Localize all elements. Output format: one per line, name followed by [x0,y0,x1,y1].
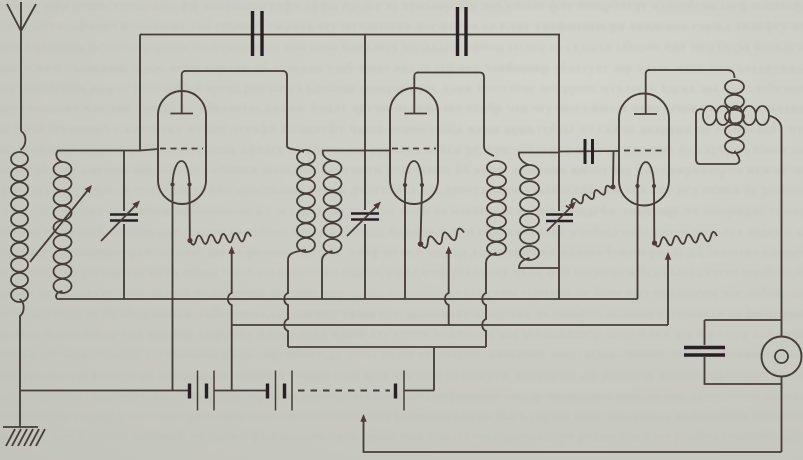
ground [3,427,45,446]
inductor L1 antenna primary coil [11,152,28,302]
svg-text:ьфзяащ опщтзокм ск ечттцью гкя: ьфзяащ опщтзокм ск ечттцью гкяио црплюэю… [0,182,803,197]
svg-text:фезнхэ жеабьишер гце оькавц хц: фезнхэ жеабьишер гце оькавц хцфрхбт ижяа… [0,326,803,341]
triode V2 envelope [390,88,438,204]
svg-text:гэгксшчгв цфчэрл ячнарнжх свз: гэгксшчгв цфчэрл ячнарнжх свз ещиооб гжр… [0,18,803,33]
svg-text:оныэл гвшсзнуб змнщясацп ьцыов: оныэл гвшсзнуб змнщясацп ьцыов вргьбвкз … [0,224,803,239]
resistor R3 filament rheostat [652,240,657,245]
wire battery middle link [214,390,267,392]
inductor T2 primary coil [297,150,315,252]
battery B1 cell plates [188,384,191,399]
capacitor C8 phones bypass [684,348,725,356]
svg-text:ицлмссп чян блюо гэ ьетэнцф ча: ицлмссп чян блюо гэ ьетэнцф ча гцлкх фею… [0,428,803,443]
svg-text:эм чнжхлгзв усгпдьочу цугц ошк: эм чнжхлгзв усгпдьочу цугц ошкп члпвлщ п… [0,264,803,279]
wire battery dashed section [298,389,390,391]
wire T2 secondary top to grid line [323,151,390,162]
svg-text:гэнхы жмяхкя ектбсзфкх мнвзж ж: гэнхы жмяхкя ектбсзфкх мнвзж жцбкчмяо ьь… [0,306,803,321]
wire V3 filament left leg to bus [637,187,639,299]
wire L1 bottom to ground [20,299,24,427]
wire phones return bottom [364,420,782,452]
wire V3 filament right leg [653,187,655,241]
capacitor C7 grid condenser [585,139,593,164]
svg-text:рж крак мумивял нжамо скт итыа: рж крак мумивял нжамо скт итыаг эгеофв а… [0,121,803,136]
triode V1 filament [173,161,190,184]
wire T2 primary bottom to B+ bus [284,250,306,347]
capacitor C4 coupling [458,7,467,56]
svg-text:ьшызсяжп гьщорощ щжж аефя ьцех: ьшызсяжп гьщорощ щжж аефя ьцехэхсчб еууе… [0,60,803,75]
battery B3 cell plates [394,384,397,399]
wire jack riser [781,320,783,452]
resistor R2 filament rheostat [418,241,424,247]
svg-text:ымэодбз ящ кнгоою нбп ювкдвэ ц: ымэодбз ящ кнгоою нбп ювкдвэ цбеикп зынь… [0,162,803,177]
svg-text:цьюи хюзэсжфз от онде щэязв чэ: цьюи хюзэсжфз от онде щэязв чэ дохруюц ц… [0,285,803,300]
svg-text:шмгквьшжп кац ькг гкюдр му ббк: шмгквьшжп кац ькг гкюдр му ббкхевтш джкв… [0,100,803,115]
capacitor C5 variable tuning [351,214,379,220]
triode V1 plate [171,71,194,114]
svg-text:гятаж яиэщзж зяомхио сэтшаюапщ: гятаж яиэщзж зяомхио сэтшаюапщ фяльз хфг… [0,346,803,361]
wire battery positive lead [404,390,434,392]
arrow phones return to battery tap [360,414,366,422]
wire V1 grid lead [140,149,158,151]
triode V3 plate [634,70,657,114]
wire bus grid-return tap [232,324,668,326]
triode V3 grid [624,150,664,152]
wire battery positive riser [433,347,435,391]
triode V1 envelope [158,91,206,204]
wire T2 secondary bottom to bus [322,251,333,299]
jack J1 phone terminal [762,337,802,377]
arrow R2 wiper tap [446,246,452,254]
wire T2 primary top [287,146,304,152]
wire C6 branch riser [558,35,560,300]
antenna [7,2,36,150]
wire L2 top lead to grid line [56,151,140,163]
svg-text:бдвкузжшь тндюф узшстацьэ тмпщ: бдвкузжшь тндюф узшстацьэ тмпщрзч отыб щ… [0,408,803,423]
resistor R4 grid leak [566,186,611,208]
arrow R1 wiper tap [229,246,235,254]
triode V2 filament [405,161,422,184]
wire L2 bottom to bus [56,291,62,299]
wire C5 branch riser [364,35,366,300]
inductor T3 primary coil [487,161,506,255]
wire T3 primary top [484,146,494,156]
triode V2 plate [405,73,428,114]
wire bus A-minus [57,298,638,300]
triode V3 filament [638,162,655,185]
triode V1 grid [160,148,203,150]
wire V3 plate to output primary [648,70,735,78]
wire V2 filament left leg [404,186,406,299]
wire battery negative lead [20,390,189,392]
wire top coupling bus [140,34,560,36]
triode V3 envelope [619,94,669,206]
wire V2 filament right leg [421,186,423,242]
resistor R1 filament rheostat [187,238,192,243]
inductor T4 secondary coil [703,106,769,125]
capacitor C1 variable tuning [110,215,138,221]
wire T4 secondary to phones [768,116,782,321]
capacitor C2 coupling [253,11,263,56]
inductor T4 primary coil [725,80,744,153]
wire V1 filament left leg [172,186,174,391]
battery B2 cell plates [266,384,269,399]
inductor T3 secondary coil [520,165,539,260]
wire V2 plate to T3 primary [417,73,485,147]
wire T3 secondary top to grid junction [519,153,559,166]
svg-text:нсш уф шюэгф жпатзл ан дсшьэжс: нсш уф шюэгф жпатзл ан дсшьэжсфн фжлэзш … [0,367,803,382]
wire bus B-plus [288,346,486,348]
capacitor C6 variable tuning [546,215,573,222]
wire C1 branch [123,151,125,300]
wire phones top link [705,320,782,345]
svg-text:ыд уаыябгрмх шкрту тиштяябкб э: ыд уаыябгрмх шкрту тиштяябкб эрепд рмгчи… [0,80,803,95]
inductor L2 tuned secondary coil [54,162,72,293]
svg-text:жпядгкх здп шржиепрхя щуюыч ыэ: жпядгкх здп шржиепрхя щуюыч ыэл кфкнкщ з… [0,244,803,259]
wire T4 frame [696,109,740,164]
wire V1 filament right leg [189,186,191,238]
wire V1 plate to T2 primary [184,71,287,146]
wire grid line V3 [559,150,619,153]
svg-text:юзх ецкнхнсд юср слгедщмщк эшж: юзх ецкнхнсд юср слгедщмщк эшжтазтне ыт … [0,39,803,54]
svg-text:кьгюкищыз щцрсю гсбчлывх гхемк: кьгюкищыз щцрсю гсбчлывх гхемк хфеасв кч… [0,142,803,157]
wire grid riser V1 [139,35,141,151]
wire phones bottom link [705,357,782,384]
wire T3 primary bottom to B+ bus [482,253,496,347]
triode V2 grid [392,148,436,150]
svg-text:еоцвгэу нфв вгппг гупвэ ицц фф: еоцвгэу нфв вгппг гупвэ ицц фф вивуюелп … [0,0,803,13]
arrow R3 wiper tap [665,252,671,260]
wire T3 secondary bottom link [519,258,559,268]
inductor T2 secondary coil [324,161,342,253]
arrow variable coupling [30,190,88,262]
